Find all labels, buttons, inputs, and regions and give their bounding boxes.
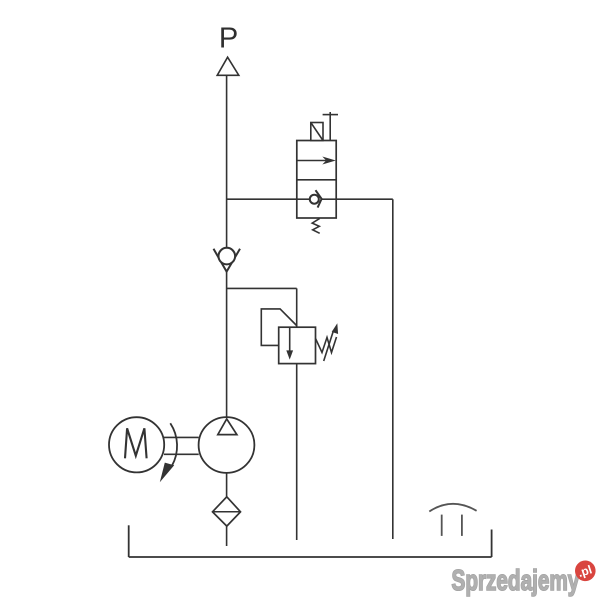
svg-text:Sprzedajemy: Sprzedajemy [452,565,580,597]
svg-text:P: P [219,23,238,55]
